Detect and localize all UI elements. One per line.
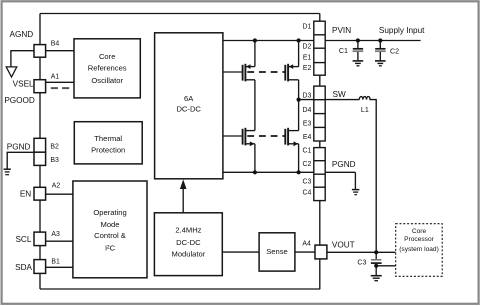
svg-text:E3: E3 [303,121,312,128]
wire strip2 to strip3 [319,141,321,148]
wire AGND to ground [11,51,34,67]
svg-text:SW: SW [333,90,346,99]
svg-text:Operating: Operating [93,208,126,217]
svg-text:2.4MHz: 2.4MHz [175,226,201,235]
block 2.4MHz DC-DC Modulator [154,213,222,276]
node VOUT / C3 top [374,250,378,254]
node SW junction [297,98,301,102]
capacitor C1 [353,41,364,61]
wire PVIN rail [223,40,421,42]
wire EN to Operating block [46,193,73,195]
wire A1 dashed stub [51,87,69,89]
wire dashed gate link upper [247,71,284,73]
wire A1 to Core block [46,81,74,83]
svg-text:Control &: Control & [94,231,126,240]
svg-text:A2: A2 [52,182,61,189]
pin squares left side [34,45,327,274]
svg-text:Processor: Processor [404,236,434,243]
wire Sense to A4 [295,251,315,253]
ground (C2) [375,61,386,66]
svg-text:PGND: PGND [332,160,356,169]
block Core Processor (system load) dashed [396,224,443,277]
transistor Q3 (low-side left NMOS) [243,128,255,173]
wire VOUT rail [327,251,396,253]
wire SCL to Operating block [46,240,73,242]
svg-text:E4: E4 [303,134,312,141]
svg-text:Core: Core [412,228,427,235]
block Sense [259,233,295,271]
ground triangle (AGND) [6,67,17,77]
svg-text:B3: B3 [50,157,59,164]
block Core References Oscillator [74,39,140,98]
pin A3 [34,232,46,246]
junction dots [253,38,383,268]
svg-text:C2: C2 [390,47,399,55]
wire PGND to ground [7,152,34,169]
pin B1 [34,260,46,274]
node Q3 source on PGND rail [253,170,257,174]
pin B3 [34,152,46,165]
svg-text:D1: D1 [302,23,311,30]
svg-text:Mode: Mode [101,220,120,229]
svg-text:Supply Input: Supply Input [379,26,425,35]
transistor Q2 (high-side right PMOS) [285,41,298,100]
IC outline U1 [40,14,320,290]
svg-text:6A: 6A [184,94,194,103]
svg-text:AGND: AGND [10,30,34,39]
capacitor C2 [375,41,386,61]
wire gate upper FETs [223,71,243,73]
svg-text:B4: B4 [51,40,60,47]
svg-text:B2: B2 [50,144,59,151]
pin strips right side [314,21,325,200]
node Q4 source on PGND rail [297,170,301,174]
pin A2 [34,187,46,200]
svg-text:E1: E1 [303,55,312,62]
svg-text:C3: C3 [357,258,366,266]
wire SW rail [299,99,360,101]
pin B4 [34,45,46,58]
ground (PGND right) [352,190,360,195]
capacitor C3 [371,252,382,275]
wire dashed gate link lower [247,135,284,137]
svg-text:Oscillator: Oscillator [91,76,123,85]
svg-text:A3: A3 [51,231,60,238]
svg-text:SDA: SDA [15,263,32,272]
svg-text:PGOOD: PGOOD [4,96,35,105]
block 6A DC-DC [155,33,223,179]
svg-text:D2: D2 [302,43,311,50]
svg-text:Sense: Sense [266,247,288,256]
svg-text:EN: EN [20,190,31,199]
blocks [73,33,295,278]
wire strip1 to strip2 [319,75,321,86]
svg-text:DC-DC: DC-DC [176,238,201,247]
ground (C3) [371,276,382,281]
node C3 bottom [374,264,378,268]
svg-text:E2: E2 [303,65,312,72]
transistor Q4 (low-side right NMOS) [285,100,298,173]
svg-text:A1: A1 [51,73,60,80]
wire C3 return to load [376,265,396,267]
node C2 tap [378,38,382,42]
pin A4 (VOUT) [315,245,327,259]
svg-text:DC-DC: DC-DC [176,104,201,113]
svg-text:B1: B1 [51,258,60,265]
wire SDA to Operating block [46,266,73,268]
svg-text:I²C: I²C [105,243,116,252]
node Q2 drain on PVIN rail [297,38,301,42]
svg-text:SCL: SCL [15,235,31,244]
node Q1 drain on PVIN rail [253,38,257,42]
svg-text:PGND: PGND [7,143,31,152]
arrowhead modulator to 6A DC-DC [180,179,187,189]
svg-text:(system load): (system load) [399,246,439,253]
svg-text:C2: C2 [302,161,311,168]
svg-text:C1: C1 [339,47,348,55]
svg-text:PVIN: PVIN [332,26,351,35]
svg-text:Modulator: Modulator [172,250,206,259]
inductor L1 [359,96,376,252]
wire PGND rail [223,171,356,173]
svg-text:A4: A4 [302,241,311,248]
pin strip C1 C2 C3 C4 [314,148,325,201]
wire PGND rail to ground [354,172,356,189]
pin strip D3 D4 E3 E4 [314,86,325,141]
svg-text:L1: L1 [361,106,369,114]
svg-text:Thermal: Thermal [94,134,122,143]
svg-text:D3: D3 [302,93,311,100]
svg-text:C1: C1 [302,147,311,154]
block Operating Mode Control & I2C [73,181,147,278]
svg-text:D4: D4 [302,107,311,114]
wire B4 to Core block [40,50,74,52]
transistor Q1 (high-side left PMOS) [243,41,255,131]
ground (PGND left) [4,169,11,175]
svg-text:References: References [88,63,127,72]
svg-text:C3: C3 [302,179,311,186]
pin B2 [34,138,46,152]
pin strip D1 D2 E1 E2 [314,21,325,75]
ground (C1) [353,61,364,66]
node C1 tap [356,38,360,42]
wire arrow modulator to 6A DC-DC [182,188,184,213]
wire gate lower FETs [223,135,243,137]
wire modulator to Sense [222,251,259,253]
svg-text:Protection: Protection [91,146,125,155]
svg-text:Core: Core [99,52,115,61]
svg-text:VOUT: VOUT [332,240,355,249]
svg-text:VSEL: VSEL [13,80,34,89]
block Thermal Protection [74,122,142,164]
svg-text:C4: C4 [302,189,311,196]
pin A1 [34,80,46,93]
